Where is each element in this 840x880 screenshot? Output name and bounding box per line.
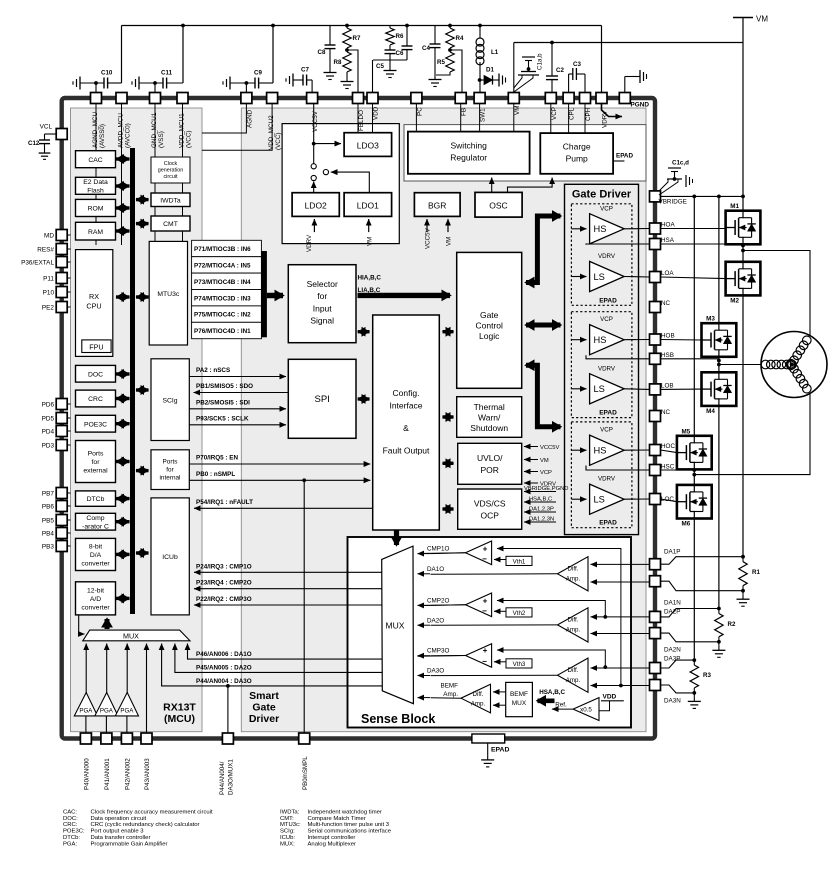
svg-text:Regulator: Regulator <box>450 153 487 163</box>
svg-text:Thermal: Thermal <box>474 402 505 412</box>
svg-text:SPI: SPI <box>315 394 330 405</box>
svg-text:P10: P10 <box>43 289 55 296</box>
svg-text:R8: R8 <box>334 59 342 66</box>
svg-text:PB1/SMISO5 : SDO: PB1/SMISO5 : SDO <box>196 383 253 390</box>
svg-text:AGND_MCU: AGND_MCU <box>92 112 99 148</box>
svg-text:&: & <box>403 423 409 433</box>
svg-text:Ref.: Ref. <box>555 702 567 709</box>
svg-text:(AVSS0): (AVSS0) <box>99 124 106 148</box>
svg-text:CMT:: CMT: <box>280 816 294 822</box>
svg-text:P93/SCK5 : SCLK: P93/SCK5 : SCLK <box>196 415 249 422</box>
svg-text:MTU3c: MTU3c <box>157 291 180 298</box>
svg-text:P43/AN003: P43/AN003 <box>144 758 151 790</box>
svg-text:Independent watchdog timer: Independent watchdog timer <box>308 810 382 816</box>
svg-text:PB0 : nSMPL: PB0 : nSMPL <box>196 471 235 478</box>
svg-text:-arator C: -arator C <box>82 524 109 531</box>
svg-text:CPL: CPL <box>569 107 576 120</box>
svg-text:P36/EXTAL: P36/EXTAL <box>21 259 54 266</box>
svg-text:Diff.: Diff. <box>568 566 579 573</box>
svg-text:DA1N: DA1N <box>664 599 681 606</box>
svg-text:ICUb:: ICUb: <box>280 835 295 841</box>
svg-text:P46/AN006 : DA1O: P46/AN006 : DA1O <box>196 651 252 658</box>
svg-text:MUX:: MUX: <box>280 841 295 847</box>
svg-text:OSC: OSC <box>489 201 507 211</box>
svg-text:Signal: Signal <box>310 316 334 326</box>
svg-text:DTCb:: DTCb: <box>63 835 80 841</box>
svg-text:CAC: CAC <box>88 157 102 164</box>
svg-text:A/D: A/D <box>90 596 101 603</box>
svg-text:VDRV: VDRV <box>306 234 313 252</box>
svg-text:Ports: Ports <box>88 451 104 458</box>
svg-text:M2: M2 <box>730 297 739 304</box>
svg-text:FB: FB <box>461 108 468 116</box>
svg-text:C2: C2 <box>556 67 564 74</box>
svg-text:RES#: RES# <box>37 246 54 253</box>
svg-text:MUX: MUX <box>512 700 527 707</box>
svg-text:HSA,B,C: HSA,B,C <box>539 689 565 696</box>
svg-text:PGA:: PGA: <box>63 841 77 847</box>
svg-text:HS: HS <box>594 224 607 234</box>
svg-text:generation: generation <box>158 168 183 174</box>
svg-text:Pump: Pump <box>566 154 588 164</box>
svg-text:Interrupt controller: Interrupt controller <box>308 835 356 841</box>
svg-text:CPH: CPH <box>585 107 592 121</box>
svg-text:circuit: circuit <box>163 174 178 180</box>
svg-text:HSB: HSB <box>661 352 674 359</box>
svg-text:(VCC): (VCC) <box>275 133 282 151</box>
svg-text:POE3C:: POE3C: <box>63 829 85 835</box>
svg-text:R4: R4 <box>456 35 464 42</box>
svg-text:12-bit: 12-bit <box>87 587 104 594</box>
svg-text:MUX: MUX <box>123 631 139 640</box>
svg-text:DA1,2,3N: DA1,2,3N <box>529 517 554 523</box>
svg-text:Driver: Driver <box>249 713 279 725</box>
svg-text:Amp.: Amp. <box>566 576 581 583</box>
svg-text:Clock: Clock <box>164 161 178 167</box>
svg-text:Config.: Config. <box>393 388 420 398</box>
svg-text:M6: M6 <box>682 521 691 528</box>
svg-text:NC: NC <box>661 409 671 416</box>
svg-text:C1c,d: C1c,d <box>672 160 689 167</box>
svg-text:EPAD: EPAD <box>616 153 633 160</box>
svg-text:HOA: HOA <box>661 222 675 229</box>
svg-text:Gate: Gate <box>480 310 499 320</box>
svg-text:Switching: Switching <box>451 141 488 151</box>
svg-text:Selector: Selector <box>307 279 338 289</box>
svg-text:E2 Data: E2 Data <box>83 179 108 186</box>
svg-text:DA1O: DA1O <box>427 566 444 573</box>
svg-text:Amp.: Amp. <box>566 677 581 684</box>
svg-text:DA3O/MUX1: DA3O/MUX1 <box>227 759 234 795</box>
svg-text:CMP1O: CMP1O <box>427 546 449 553</box>
svg-text:BGR: BGR <box>428 201 446 211</box>
svg-text:+: + <box>483 545 488 554</box>
svg-text:Input: Input <box>313 303 333 313</box>
svg-text:L1: L1 <box>491 49 499 56</box>
svg-text:VCC5V: VCC5V <box>425 227 432 249</box>
svg-text:Compare Match Timer: Compare Match Timer <box>308 816 366 822</box>
svg-text:D/A: D/A <box>90 552 102 559</box>
svg-text:SW1: SW1 <box>480 108 487 122</box>
svg-text:R7: R7 <box>353 35 361 42</box>
svg-text:FBLDO: FBLDO <box>358 110 365 131</box>
svg-text:DTCb: DTCb <box>87 496 105 503</box>
svg-text:PD6: PD6 <box>42 401 55 408</box>
svg-text:+: + <box>483 597 488 606</box>
svg-text:VDD: VDD <box>603 693 617 700</box>
svg-text:C7: C7 <box>301 67 309 74</box>
svg-text:VM: VM <box>756 15 768 24</box>
svg-text:P71/MTIOC3B : IN6: P71/MTIOC3B : IN6 <box>194 246 251 253</box>
svg-text:VM: VM <box>367 237 374 246</box>
svg-text:M3: M3 <box>706 316 715 323</box>
svg-text:Programmable Gain Amplifier: Programmable Gain Amplifier <box>91 841 168 847</box>
svg-text:PB2/SMOSI5 : SDI: PB2/SMOSI5 : SDI <box>196 399 250 406</box>
svg-text:CMP3O: CMP3O <box>427 648 449 655</box>
svg-text:P74/MTIOC3D : IN3: P74/MTIOC3D : IN3 <box>194 295 251 302</box>
svg-text:Warn/: Warn/ <box>478 413 501 423</box>
svg-text:Logic: Logic <box>479 331 500 341</box>
svg-text:Fault Output: Fault Output <box>383 446 430 456</box>
svg-text:AVDD_MCU: AVDD_MCU <box>117 113 124 148</box>
svg-text:RX: RX <box>89 292 99 301</box>
svg-text:VDD: VDD <box>373 106 380 120</box>
svg-text:Sense Block: Sense Block <box>361 712 435 726</box>
svg-text:POR: POR <box>480 465 498 475</box>
svg-text:C4: C4 <box>422 45 430 52</box>
svg-text:ICUb: ICUb <box>162 554 178 561</box>
svg-text:PD5: PD5 <box>42 415 55 422</box>
svg-text:P44/AN004/: P44/AN004/ <box>219 761 226 795</box>
svg-text:P45/AN005 : DA2O: P45/AN005 : DA2O <box>196 664 252 671</box>
svg-text:C11: C11 <box>161 70 173 77</box>
svg-text:Flash: Flash <box>87 188 104 195</box>
svg-text:CRC:: CRC: <box>63 822 78 828</box>
svg-text:R5: R5 <box>437 59 445 66</box>
svg-text:CMP2O: CMP2O <box>427 597 449 604</box>
svg-text:LS: LS <box>594 384 605 394</box>
svg-text:VDRV: VDRV <box>598 476 616 483</box>
svg-text:PB5: PB5 <box>42 517 55 524</box>
svg-text:Amp.: Amp. <box>566 627 581 634</box>
svg-text:EPAD: EPAD <box>491 747 509 754</box>
svg-text:VM: VM <box>514 106 521 115</box>
svg-text:PB0/nSMPL: PB0/nSMPL <box>302 756 309 790</box>
svg-text:VCP: VCP <box>600 205 613 212</box>
svg-text:CRC: CRC <box>88 396 103 403</box>
svg-text:VCC5V: VCC5V <box>312 110 319 132</box>
svg-text:Interface: Interface <box>389 401 422 411</box>
svg-text:UVLO/: UVLO/ <box>477 453 503 463</box>
svg-text:NC: NC <box>661 300 671 307</box>
svg-text:DA1P: DA1P <box>664 548 680 555</box>
svg-text:C1a,b: C1a,b <box>537 53 544 70</box>
svg-text:DA1,2,3P: DA1,2,3P <box>529 507 554 513</box>
svg-text:Smart: Smart <box>249 690 279 702</box>
svg-text:R3: R3 <box>703 672 711 679</box>
svg-text:P42/AN002: P42/AN002 <box>125 758 132 790</box>
svg-text:P76/MTIOC4D : IN1: P76/MTIOC4D : IN1 <box>194 328 251 335</box>
svg-text:SCIg:: SCIg: <box>280 829 295 835</box>
svg-text:C8: C8 <box>318 49 326 56</box>
svg-text:VCP: VCP <box>551 107 558 120</box>
svg-text:P23/IRQ4 : CMP2O: P23/IRQ4 : CMP2O <box>196 580 252 587</box>
svg-text:R2: R2 <box>728 621 736 628</box>
svg-text:Ports: Ports <box>163 459 178 466</box>
svg-text:(MCU): (MCU) <box>164 713 195 725</box>
svg-text:LS: LS <box>594 272 605 282</box>
svg-text:VM: VM <box>446 237 453 246</box>
svg-text:DA2O: DA2O <box>427 617 444 624</box>
svg-text:DA3O: DA3O <box>427 668 444 675</box>
svg-text:for: for <box>317 291 327 301</box>
svg-text:HOB: HOB <box>661 333 675 340</box>
svg-text:Data operation circuit: Data operation circuit <box>91 816 147 822</box>
svg-text:P41/AN001: P41/AN001 <box>104 758 111 790</box>
svg-text:VDS/CS: VDS/CS <box>474 499 506 509</box>
svg-text:EPAD: EPAD <box>599 410 617 417</box>
svg-text:−: − <box>482 555 487 564</box>
svg-text:HS: HS <box>594 446 607 456</box>
svg-text:HIA,B,C: HIA,B,C <box>358 274 382 281</box>
svg-text:DA3N: DA3N <box>664 697 681 704</box>
svg-text:Analog Multiplexer: Analog Multiplexer <box>308 841 356 847</box>
svg-text:VCP: VCP <box>540 470 552 476</box>
svg-text:Clock frequency accuracy measu: Clock frequency accuracy measurement cir… <box>91 810 213 816</box>
svg-text:HSA: HSA <box>661 237 675 244</box>
svg-text:ROM: ROM <box>88 206 104 213</box>
svg-text:Multi-function timer pulse uni: Multi-function timer pulse unit 3 <box>308 822 390 828</box>
svg-text:CPU: CPU <box>86 302 101 311</box>
svg-text:HOC: HOC <box>661 443 675 450</box>
svg-text:for: for <box>166 467 174 474</box>
svg-text:CRC (cyclic redundancy check): CRC (cyclic redundancy check) calculator <box>91 822 200 828</box>
svg-text:VBRIDGE: VBRIDGE <box>659 199 687 206</box>
svg-text:Gate: Gate <box>252 702 276 714</box>
svg-text:HS: HS <box>594 335 607 345</box>
svg-text:DA3P: DA3P <box>664 655 680 662</box>
svg-text:internal: internal <box>160 475 181 482</box>
svg-text:PGND: PGND <box>631 102 650 109</box>
svg-text:converter: converter <box>81 561 110 568</box>
svg-text:M1: M1 <box>730 203 739 210</box>
svg-text:AGND: AGND <box>246 109 253 128</box>
svg-text:EPAD: EPAD <box>599 297 617 304</box>
svg-text:D1: D1 <box>486 67 494 74</box>
svg-text:C5: C5 <box>376 63 384 70</box>
svg-text:LIA,B,C: LIA,B,C <box>358 287 381 294</box>
svg-text:Vth2: Vth2 <box>513 610 526 617</box>
svg-text:P70/IRQ5 : EN: P70/IRQ5 : EN <box>196 455 238 462</box>
svg-text:VCP: VCP <box>600 427 613 434</box>
svg-text:(AVCC0): (AVCC0) <box>125 123 132 148</box>
svg-text:x0.5: x0.5 <box>580 707 592 714</box>
svg-text:P11: P11 <box>43 275 54 282</box>
svg-text:M5: M5 <box>682 428 691 435</box>
svg-text:LDO2: LDO2 <box>305 201 327 211</box>
svg-text:VCC5V: VCC5V <box>540 445 559 451</box>
svg-text:PGA: PGA <box>120 708 134 715</box>
svg-text:C10: C10 <box>101 70 113 77</box>
svg-text:Diff.: Diff. <box>568 667 579 674</box>
svg-text:P24/IRQ3 : CMP1O: P24/IRQ3 : CMP1O <box>196 563 252 570</box>
svg-text:VM: VM <box>540 458 549 464</box>
svg-text:P44/AN004 : DA3O: P44/AN004 : DA3O <box>196 678 252 685</box>
svg-text:MD: MD <box>44 232 54 239</box>
svg-text:Diff.: Diff. <box>568 617 579 624</box>
svg-text:R6: R6 <box>396 33 404 40</box>
svg-text:LDO3: LDO3 <box>357 141 379 151</box>
svg-text:DA2N: DA2N <box>664 646 681 653</box>
svg-text:LS: LS <box>594 495 605 505</box>
svg-text:PE2: PE2 <box>42 304 55 311</box>
svg-text:FPU: FPU <box>89 342 103 351</box>
svg-text:for: for <box>92 459 101 466</box>
svg-text:VBRIDGE,PGND: VBRIDGE,PGND <box>524 486 568 492</box>
svg-text:RX13T: RX13T <box>163 702 196 714</box>
svg-text:Port output enable 3: Port output enable 3 <box>91 829 145 835</box>
svg-text:Amp.: Amp. <box>471 701 486 708</box>
svg-text:Gate Driver: Gate Driver <box>572 189 632 201</box>
svg-text:Amp.: Amp. <box>443 691 458 698</box>
svg-text:(VCC): (VCC) <box>186 131 193 149</box>
svg-text:Charge: Charge <box>563 142 591 152</box>
svg-text:LOB: LOB <box>661 382 674 389</box>
svg-text:P22/IRQ2 : CMP3O: P22/IRQ2 : CMP3O <box>196 596 252 603</box>
svg-text:MUX: MUX <box>386 621 405 631</box>
svg-text:POE3C: POE3C <box>84 421 107 428</box>
svg-text:P54/IRQ1 : nFAULT: P54/IRQ1 : nFAULT <box>196 499 253 506</box>
svg-text:PB7: PB7 <box>42 490 55 497</box>
svg-text:P75/MTIOC4C : IN2: P75/MTIOC4C : IN2 <box>194 312 251 319</box>
svg-text:converter: converter <box>81 605 110 612</box>
svg-text:PGA: PGA <box>79 708 93 715</box>
svg-text:SCIg: SCIg <box>162 398 177 405</box>
svg-text:PD4: PD4 <box>42 428 55 435</box>
svg-text:EPAD: EPAD <box>599 520 617 527</box>
svg-text:VCP: VCP <box>600 316 613 323</box>
svg-text:IWDTa:: IWDTa: <box>280 810 300 816</box>
svg-text:VDRV: VDRV <box>598 365 616 372</box>
svg-text:R1: R1 <box>752 569 760 576</box>
svg-text:Comp: Comp <box>86 515 104 522</box>
svg-text:VDRV: VDRV <box>598 253 616 260</box>
svg-text:DOC:: DOC: <box>63 816 78 822</box>
svg-text:BEMF: BEMF <box>441 682 459 689</box>
svg-text:RAM: RAM <box>88 229 103 236</box>
svg-text:LOA: LOA <box>661 270 674 277</box>
svg-text:M4: M4 <box>706 408 715 415</box>
svg-text:CAC:: CAC: <box>63 810 77 816</box>
svg-text:−: − <box>482 606 487 615</box>
svg-text:C9: C9 <box>254 70 262 77</box>
svg-text:GND_MCU1: GND_MCU1 <box>151 112 158 148</box>
svg-text:Shutdown: Shutdown <box>470 423 508 433</box>
svg-text:C3: C3 <box>573 61 581 68</box>
svg-text:LDO1: LDO1 <box>357 201 379 211</box>
svg-text:external: external <box>83 468 108 475</box>
svg-text:−: − <box>482 657 487 666</box>
svg-text:P40/AN000: P40/AN000 <box>84 758 91 790</box>
svg-text:C12: C12 <box>28 140 40 147</box>
svg-text:+: + <box>483 646 488 655</box>
svg-text:VDD_MCU1: VDD_MCU1 <box>178 113 185 148</box>
svg-text:PB6: PB6 <box>42 503 55 510</box>
svg-text:IWDTa: IWDTa <box>160 198 181 205</box>
svg-text:PA2 : nSCS: PA2 : nSCS <box>196 367 230 374</box>
svg-text:8-bit: 8-bit <box>89 543 102 550</box>
svg-text:Diff.: Diff. <box>473 691 484 698</box>
svg-text:Vth3: Vth3 <box>513 661 526 668</box>
svg-text:(VSS): (VSS) <box>158 131 165 148</box>
svg-text:DOC: DOC <box>88 371 103 378</box>
svg-text:MTU3c:: MTU3c: <box>280 822 301 828</box>
svg-text:P73/MTIOC4B : IN4: P73/MTIOC4B : IN4 <box>194 279 251 286</box>
svg-text:VDD_MCU2: VDD_MCU2 <box>268 115 275 150</box>
svg-text:PB4: PB4 <box>42 530 55 537</box>
svg-text:VDRV: VDRV <box>602 110 609 128</box>
svg-text:Serial communications interfac: Serial communications interface <box>308 829 392 835</box>
svg-text:P72/MTIOC4A : IN5: P72/MTIOC4A : IN5 <box>194 263 251 270</box>
svg-text:PB3: PB3 <box>42 543 55 550</box>
svg-text:BEMF: BEMF <box>510 691 528 698</box>
svg-text:DA2P: DA2P <box>664 608 680 615</box>
svg-text:HSA,B,C: HSA,B,C <box>529 497 552 503</box>
svg-text:VCL: VCL <box>40 124 53 131</box>
svg-text:CMT: CMT <box>163 221 178 228</box>
svg-text:Data transfer controller: Data transfer controller <box>91 835 151 841</box>
svg-text:C6: C6 <box>396 50 404 57</box>
svg-text:Vth1: Vth1 <box>513 558 526 565</box>
svg-text:OCP: OCP <box>480 511 499 521</box>
svg-text:PGA: PGA <box>100 708 114 715</box>
svg-text:Control: Control <box>475 321 503 331</box>
svg-text:PC: PC <box>416 107 423 116</box>
svg-text:PD3: PD3 <box>42 442 55 449</box>
